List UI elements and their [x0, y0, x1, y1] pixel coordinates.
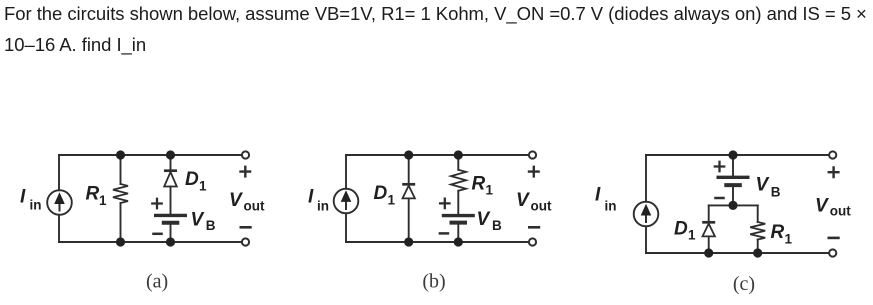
battery plus sign (a): [152, 199, 161, 208]
label R1 (b): [472, 173, 494, 197]
svg-text:1: 1: [388, 192, 396, 207]
wire: top rail (c): [646, 154, 833, 156]
svg-text:B: B: [771, 185, 781, 200]
node dot top R1 (b): [454, 150, 463, 159]
svg-text:V: V: [815, 195, 829, 216]
svg-text:V: V: [191, 209, 205, 230]
svg-text:V: V: [229, 190, 243, 211]
output plus sign (b): [529, 167, 539, 177]
svg-text:I: I: [20, 187, 26, 208]
wire: bottom rail (b): [346, 241, 533, 243]
output plus sign (c): [829, 167, 839, 177]
svg-text:out: out: [531, 199, 552, 214]
svg-text:V: V: [516, 190, 530, 211]
label Vout (a): [229, 190, 265, 214]
wire: R1 branch lower (a): [120, 203, 122, 242]
wire: left branch upper (b): [345, 155, 347, 189]
svg-text:(a): (a): [146, 271, 168, 293]
svg-text:1: 1: [486, 183, 494, 198]
node dot bottom D1 (a): [166, 237, 175, 246]
wire: R1 sub-branch lower (c): [757, 240, 759, 254]
svg-text:in: in: [605, 199, 617, 214]
output minus sign (c): [829, 237, 839, 240]
svg-text:B: B: [492, 218, 502, 233]
wire: R1 sub-branch upper (c): [757, 205, 759, 222]
svg-text:B: B: [206, 218, 216, 233]
label D1 (a): [185, 169, 207, 193]
battery minus sign (b): [440, 232, 448, 235]
node dot top R1 (a): [116, 150, 125, 159]
battery minus sign (a): [154, 233, 162, 236]
battery VB (c): [717, 177, 750, 185]
label VB (a): [191, 209, 216, 233]
wire: D1 branch top (a): [170, 155, 172, 170]
wire: split horizontal (c): [709, 204, 758, 206]
label Iin (a): [20, 187, 42, 213]
wire: battery branch top (c): [732, 155, 734, 176]
wire: R1 branch top (b): [457, 155, 459, 170]
label R1 (a): [86, 184, 108, 209]
label R1 (c): [771, 222, 793, 246]
svg-text:out: out: [830, 204, 851, 219]
label Vout (c): [815, 195, 851, 218]
battery plus sign (c): [715, 162, 724, 171]
node dot top D1 (a): [166, 150, 175, 159]
wire: D1 to battery (a): [170, 187, 172, 214]
terminal bottom (a): [242, 238, 249, 245]
node dot top D1 (b): [404, 150, 413, 159]
node dot bottom D1 (c): [704, 248, 713, 257]
svg-text:D: D: [185, 169, 199, 190]
diode D1 (a): [164, 171, 177, 187]
node dot top battery (c): [728, 150, 737, 159]
terminal bottom (c): [829, 249, 836, 256]
label Vout (b): [516, 190, 552, 214]
wire: battery to bottom rail (a): [170, 225, 172, 242]
node dot bottom D1 (b): [404, 237, 413, 246]
svg-text:out: out: [244, 199, 265, 214]
wire: battery to bottom rail (b): [457, 225, 459, 242]
wire: R1 branch upper (a): [120, 155, 122, 184]
svg-text:1: 1: [199, 179, 207, 194]
wire: left branch lower (b): [345, 213, 347, 242]
output minus sign (a): [241, 226, 251, 229]
wire: R1 to battery (b): [457, 191, 459, 214]
svg-text:in: in: [30, 198, 42, 213]
current source Iin (c): [634, 202, 659, 227]
svg-text:D: D: [374, 183, 388, 204]
battery VB (b): [442, 216, 475, 223]
battery VB (a): [154, 215, 187, 222]
svg-text:I: I: [308, 187, 314, 208]
svg-text:in: in: [317, 199, 329, 214]
wire: D1 branch bottom (b): [408, 198, 410, 242]
svg-text:(b): (b): [422, 271, 445, 293]
battery plus sign (b): [440, 199, 449, 208]
terminal top (b): [529, 151, 536, 158]
label D1 (c): [674, 218, 696, 242]
svg-text:V: V: [477, 209, 491, 230]
svg-text:I: I: [595, 184, 601, 205]
label Iin (c): [595, 184, 617, 213]
svg-text:R: R: [771, 222, 785, 243]
diode D1 (c): [702, 222, 715, 236]
svg-text:1: 1: [99, 193, 107, 208]
battery minus sign (c): [716, 197, 724, 200]
wire: left branch upper (a): [58, 155, 60, 190]
wire: top rail (b): [346, 154, 533, 156]
wire: top rail (a): [59, 154, 246, 156]
wire: bottom rail (a): [59, 241, 246, 243]
svg-text:1: 1: [688, 228, 696, 243]
svg-text:1: 1: [785, 231, 793, 246]
wire: D1 branch top (b): [408, 155, 410, 183]
label VB (c): [756, 175, 781, 200]
wire: D1 sub-branch lower (c): [708, 236, 710, 253]
resistor R1 (c): [750, 222, 765, 240]
svg-text:V: V: [756, 175, 770, 196]
wire: bottom rail (c): [646, 252, 833, 254]
label VB (b): [477, 209, 503, 233]
terminal bottom (b): [529, 238, 536, 245]
label D1 (b): [374, 183, 396, 207]
terminal top (c): [829, 151, 836, 158]
current source Iin (b): [334, 189, 359, 214]
svg-text:D: D: [674, 218, 688, 239]
output plus sign (a): [241, 167, 251, 177]
svg-text:(c): (c): [733, 273, 755, 295]
current source Iin (a): [47, 190, 72, 215]
label Iin (b): [308, 187, 329, 214]
node dot bottom R1 (c): [753, 248, 762, 257]
diode D1 (b): [402, 184, 415, 198]
wire: battery to split node (c): [732, 187, 734, 205]
output minus sign (b): [529, 226, 539, 229]
wire: left branch lower (c): [645, 226, 647, 253]
node dot bottom R1 (b): [454, 237, 463, 246]
resistor R1 (a): [113, 184, 128, 203]
wire: D1 sub-branch upper (c): [708, 205, 710, 221]
resistor R1 (b): [451, 170, 466, 191]
node dot bottom R1 (a): [116, 237, 125, 246]
svg-text:R: R: [86, 184, 100, 205]
svg-text:R: R: [472, 173, 486, 194]
wire: left branch lower (a): [58, 215, 60, 242]
terminal top (a): [242, 151, 249, 158]
node dot split (c): [728, 201, 737, 210]
wire: left branch upper (c): [645, 155, 647, 202]
